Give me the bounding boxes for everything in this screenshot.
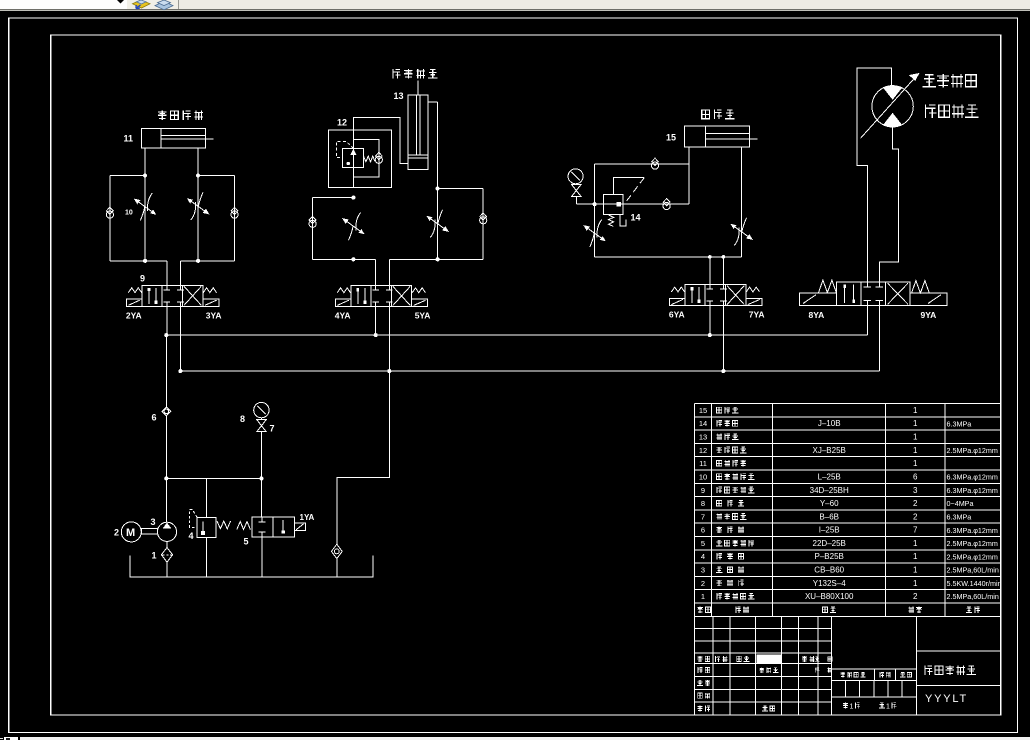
- valve V-89 left solenoid: [799, 293, 836, 305]
- node g2 rail left: [351, 257, 355, 261]
- wire right main vertical: [437, 102, 439, 259]
- node bus T g3: [721, 369, 725, 373]
- motor triangle bottom: [884, 113, 902, 127]
- title block middle section: [831, 668, 916, 670]
- svg-text:1: 1: [913, 446, 918, 455]
- wire C11 left port down: [144, 148, 146, 261]
- toolbar icon: layer properties (blue): [155, 0, 173, 10]
- svg-text:I–25B: I–25B: [819, 526, 840, 535]
- check valve 6 (diamond): [162, 407, 171, 416]
- valve V-89 center blocked ports: [866, 282, 868, 287]
- valve V-45 right spring: [412, 288, 425, 293]
- valve 14 drain: [620, 214, 626, 226]
- wire valve5 to tank: [261, 537, 263, 577]
- valve 5 blocked port stubs: [261, 517, 263, 522]
- pump 3 triangle: [163, 523, 172, 529]
- check valve g3 mid rail: [663, 202, 670, 209]
- wire bottom rail left: [110, 260, 167, 262]
- valve V9 right solenoid: [203, 299, 219, 306]
- tank rail: [130, 555, 373, 577]
- return bus (lower): [180, 370, 879, 372]
- wire g2 bottom rail right: [389, 258, 483, 260]
- svg-text:9: 9: [701, 486, 705, 495]
- svg-text:10: 10: [125, 210, 133, 217]
- svg-text:CB–B60: CB–B60: [814, 566, 844, 575]
- svg-text:2.5MPa.φ12mm: 2.5MPa.φ12mm: [947, 539, 998, 548]
- node bus T g2: [387, 369, 391, 373]
- svg-text:5: 5: [244, 537, 249, 547]
- wire gauge to branch: [261, 418, 263, 420]
- label group3 "clamp cylinder" (CJK): [702, 110, 710, 119]
- hydraulic motor circle: [872, 86, 913, 127]
- wire motor right pipe: [879, 127, 898, 287]
- svg-text:1: 1: [152, 551, 157, 561]
- wire C15 right port down: [741, 147, 743, 257]
- valve 12 body square: [343, 148, 364, 167]
- valve V-67 center position blocked ports: [709, 285, 711, 290]
- bottom scrollbar strip: [0, 737, 1030, 740]
- throttle valve right: [188, 192, 209, 220]
- node rail left: [143, 259, 147, 263]
- wire C11 right port down: [197, 148, 199, 261]
- node rail right: [196, 259, 200, 263]
- node bus P g2: [374, 333, 378, 337]
- svg-text:1: 1: [913, 579, 918, 588]
- valve V-45 right position crossed arrows: [393, 286, 410, 305]
- svg-text:2.5MPa.φ12mm: 2.5MPa.φ12mm: [947, 552, 998, 561]
- svg-text:6.3MPa.φ12mm: 6.3MPa.φ12mm: [947, 486, 998, 495]
- title block small labels: [697, 656, 702, 662]
- svg-text:P–B25B: P–B25B: [815, 552, 844, 561]
- valve 14 pilot diagonal (dashed): [625, 178, 644, 203]
- svg-text:12: 12: [337, 118, 347, 128]
- svg-text:2: 2: [913, 592, 918, 601]
- throttle valve left (item 10): [135, 193, 156, 221]
- highlighted cell: [757, 655, 781, 664]
- svg-text:2: 2: [913, 499, 918, 508]
- node g2 left split: [351, 196, 355, 200]
- valve V-67 right solenoid: [746, 298, 762, 305]
- motor variable arrow: [861, 79, 915, 139]
- valve 12 bypass loop: [353, 139, 378, 176]
- valve V9 right spring: [203, 288, 216, 293]
- svg-text:6: 6: [913, 472, 918, 481]
- svg-text:2.5MPa,60L/min: 2.5MPa,60L/min: [947, 566, 999, 575]
- svg-text:1: 1: [913, 406, 918, 415]
- valve V-89 left position arrows: [844, 285, 846, 304]
- svg-text:8: 8: [701, 499, 705, 508]
- svg-text:1: 1: [913, 566, 918, 575]
- directional valve V9 body: [142, 285, 203, 306]
- cylinder C15 piston: [704, 126, 706, 147]
- cylinder C13 piston: [408, 154, 428, 156]
- svg-text:15: 15: [699, 406, 707, 415]
- svg-text:1: 1: [850, 703, 854, 710]
- valve V9 left spring: [128, 288, 141, 293]
- wire g3 top rail: [595, 163, 690, 165]
- svg-text:9: 9: [140, 274, 145, 284]
- svg-text:12: 12: [699, 446, 707, 455]
- wire valve3 T to bus: [722, 301, 724, 371]
- gauge shutoff g3 (item 7): [572, 185, 581, 197]
- svg-text:2YA: 2YA: [126, 310, 142, 320]
- cylinder C11 body: [142, 128, 206, 148]
- svg-text:1: 1: [913, 459, 918, 468]
- wire P branch horizontal: [166, 477, 261, 479]
- svg-text:YYYLT: YYYLT: [925, 693, 968, 705]
- valve V-45 left position arrows: [357, 288, 359, 304]
- valve V9 center position blocked ports: [166, 285, 168, 290]
- svg-text:4YA: 4YA: [335, 310, 351, 320]
- toolbar icon: make layer current (yellow): [133, 0, 151, 9]
- motor triangle top: [884, 86, 902, 100]
- cylinder C13 rod inside: [416, 95, 418, 155]
- svg-text:6.3MPa.φ12mm: 6.3MPa.φ12mm: [947, 526, 998, 535]
- svg-text:6.3MPa: 6.3MPa: [947, 512, 972, 521]
- wire motor left pipe: [857, 68, 892, 287]
- wire valve2 T to bus: [388, 302, 390, 371]
- filter 1 (diamond with dashes): [161, 548, 172, 563]
- node g3 rail a: [708, 255, 712, 259]
- pump 3 circle: [157, 522, 176, 541]
- node g3: [593, 202, 597, 206]
- valve V-45 left solenoid: [335, 299, 351, 306]
- pressure gauge g3 (item 8): [568, 169, 583, 184]
- wire valve9 T port to return bus: [179, 302, 181, 371]
- svg-text:6.3MPa: 6.3MPa: [947, 419, 972, 428]
- cylinder C13 body: [408, 95, 428, 158]
- valve 12 pilot dashed line: [336, 142, 353, 158]
- valve V-89 right spring: [912, 281, 930, 294]
- check valve right bypass: [231, 211, 238, 218]
- valve 14 internal arrow: [606, 202, 621, 206]
- svg-text:1: 1: [913, 433, 918, 442]
- node g2 rail right: [436, 257, 440, 261]
- pressure gauge 8: [254, 402, 269, 417]
- wire bottom rail right: [180, 260, 234, 262]
- wire bypass left vertical: [109, 176, 111, 261]
- svg-text:2: 2: [913, 512, 918, 521]
- valve V-67 left solenoid: [669, 298, 685, 305]
- wire filter to tank: [166, 562, 168, 577]
- wire bypass rail top-left: [110, 175, 145, 177]
- wire C15 left port down: [688, 147, 690, 204]
- wire valve2 P to bus: [375, 302, 377, 335]
- valve 14 spring below: [609, 215, 614, 226]
- wire g3 mid rail: [595, 203, 690, 205]
- valve V9 left solenoid: [126, 299, 141, 306]
- parts list table grid: [695, 403, 1001, 405]
- table header row: [697, 607, 703, 613]
- svg-text:1: 1: [913, 539, 918, 548]
- node g2 right split: [436, 186, 440, 190]
- wire valve3 P to bus: [709, 301, 711, 335]
- valve V-89 right solenoid: [910, 293, 947, 305]
- node pump branch: [164, 476, 168, 480]
- wire pump riser: [165, 335, 167, 407]
- wire valve V-89 P down to bus: [866, 306, 868, 336]
- valve 12 check valve: [375, 156, 382, 163]
- throttle valve g2 right: [427, 210, 448, 238]
- wire gauge drop: [575, 184, 577, 185]
- wire branch down to unloader valve: [261, 478, 263, 517]
- sheet count labels: [843, 703, 848, 709]
- svg-text:L–25B: L–25B: [818, 472, 841, 481]
- svg-text:1: 1: [913, 552, 918, 561]
- cylinder C15 rod: [705, 133, 749, 135]
- svg-text:B–6B: B–6B: [819, 512, 839, 521]
- svg-text:XU–B80X100: XU–B80X100: [805, 592, 854, 601]
- svg-text:1: 1: [886, 703, 890, 710]
- wire right bypass vertical: [482, 189, 484, 260]
- label "hydraulic motor" (CJK): [926, 104, 937, 118]
- valve V-67 left spring: [671, 287, 684, 292]
- cylinder C15 body: [685, 126, 750, 147]
- valve V-45 left spring: [337, 288, 350, 293]
- relief valve 4 pilot dashed: [190, 510, 198, 528]
- wire pump suction: [166, 541, 168, 547]
- svg-text:6: 6: [701, 526, 705, 535]
- svg-text:5: 5: [701, 539, 705, 548]
- svg-text:M: M: [126, 527, 135, 539]
- cylinder C11 piston: [160, 128, 162, 148]
- svg-text:7YA: 7YA: [749, 310, 765, 320]
- toolbar combobox dropdown arrow: [117, 0, 124, 4]
- check valve left bypass: [106, 211, 113, 218]
- valve 5 spring left: [237, 522, 251, 530]
- wire to valve9 A port: [166, 261, 168, 290]
- valve V-67 left position arrows: [691, 287, 693, 303]
- svg-text:7: 7: [270, 424, 275, 434]
- pressure bus (upper): [166, 334, 867, 336]
- svg-text:10: 10: [699, 472, 707, 481]
- reducing valve 14 body: [604, 195, 624, 215]
- svg-text:4: 4: [189, 531, 194, 541]
- valve V9 left position arrows: [148, 288, 150, 304]
- wire to valve9 B port: [179, 261, 181, 290]
- valve 5 flow arrow: [282, 520, 284, 534]
- relief valve 4 internal arrow: [201, 522, 204, 535]
- svg-text:0~4MPa: 0~4MPa: [947, 499, 974, 508]
- gauge shutoff 7: [257, 420, 266, 432]
- valve V-45 right solenoid: [412, 299, 428, 306]
- throttle valve g3 left: [584, 220, 605, 248]
- label "overall rotation" (CJK): [923, 75, 937, 87]
- svg-text:15: 15: [666, 133, 676, 143]
- directional valve V-67 body: [685, 285, 746, 306]
- wire valve9 P port to pressure bus: [166, 302, 168, 335]
- unloader valve 5 body: [252, 517, 294, 537]
- wire g3 bottom rail: [595, 256, 742, 258]
- svg-text:8: 8: [240, 414, 245, 424]
- check valve g2 right bypass: [480, 217, 487, 224]
- wire to valve3 B: [722, 257, 724, 289]
- svg-text:3: 3: [701, 566, 705, 575]
- svg-text:J–10B: J–10B: [818, 419, 841, 428]
- svg-text:6.3MPa.φ12mm: 6.3MPa.φ12mm: [947, 473, 998, 482]
- svg-text:1: 1: [701, 592, 705, 601]
- valve 12 spring: [364, 156, 375, 162]
- svg-text:6: 6: [152, 413, 157, 423]
- svg-text:11: 11: [124, 134, 134, 144]
- svg-text:Y–60: Y–60: [820, 499, 839, 508]
- label group2 "arm lift" (CJK): [393, 69, 401, 79]
- valve 14 pilot line: [614, 178, 645, 195]
- title block outline: [695, 616, 1001, 715]
- valve V-45 center position blocked ports: [375, 285, 377, 290]
- svg-text:1: 1: [913, 419, 918, 428]
- svg-text:8YA: 8YA: [809, 310, 825, 320]
- directional valve V-89 body: [837, 282, 910, 306]
- svg-text:Y132S–4: Y132S–4: [813, 579, 846, 588]
- svg-text:14: 14: [699, 419, 707, 428]
- relief valve 4 spring: [217, 521, 231, 529]
- wire relief branch: [205, 478, 207, 517]
- svg-text:3: 3: [151, 517, 156, 527]
- svg-text:22D–25B: 22D–25B: [813, 539, 846, 548]
- wire bypass right vertical: [234, 176, 236, 261]
- cylinder C11 rod: [161, 134, 205, 136]
- svg-text:2: 2: [114, 528, 119, 538]
- wire check to tank: [336, 559, 338, 578]
- svg-text:4: 4: [701, 552, 705, 561]
- svg-text:11: 11: [699, 459, 707, 468]
- check valve g3 top rail: [651, 162, 658, 169]
- throttle valve g3 right: [731, 218, 752, 246]
- svg-text:1YA: 1YA: [300, 513, 315, 522]
- motor-pump coupling: [141, 529, 157, 535]
- wire C13 bottom port: [353, 118, 407, 164]
- wire C13 top port right: [428, 101, 438, 103]
- svg-text:3YA: 3YA: [206, 310, 222, 320]
- valve V-89 left spring: [819, 280, 837, 293]
- node g3 rail b: [722, 255, 726, 259]
- title block left grid: [695, 628, 832, 630]
- directional valve V-45 body: [351, 285, 412, 306]
- check valve g2 left bypass: [309, 220, 316, 227]
- valve V9 right position crossed arrows: [184, 286, 201, 305]
- svg-text:14: 14: [631, 213, 641, 223]
- wire g3 left vertical: [594, 164, 596, 257]
- wire relief to tank: [205, 537, 207, 577]
- valve 12 pilot dot: [347, 162, 350, 165]
- valve 12 enclosure box: [329, 130, 392, 188]
- svg-text:5YA: 5YA: [415, 310, 431, 320]
- relief valve 4 body: [197, 517, 216, 537]
- title block right column dividers: [916, 650, 1000, 652]
- svg-text:7: 7: [913, 526, 918, 535]
- wire to valve3 A: [709, 257, 711, 289]
- cylinder C13 rod-end cap: [408, 158, 428, 170]
- wire to valve2 A: [375, 259, 377, 290]
- wire g2 bottom rail left: [313, 258, 376, 260]
- node bus P g3: [708, 333, 712, 337]
- node bus T g1: [178, 369, 182, 373]
- electric motor M (item 2): [121, 522, 141, 542]
- wire return drop from bus: [337, 371, 390, 544]
- node split left: [143, 173, 147, 177]
- valve V-89 crossed arrows: [888, 283, 908, 304]
- wire valve V-89 T down to bus: [878, 306, 880, 372]
- throttle valve g2 left: [343, 213, 364, 241]
- drawing title "hydraulic schematic" (CJK): [925, 666, 933, 675]
- svg-text:2.5MPa,60L/min: 2.5MPa,60L/min: [947, 592, 999, 601]
- valve V-67 right position crossed arrows: [727, 286, 744, 305]
- cylinder C13 rod up: [417, 81, 419, 96]
- label group1 "arm telescope" (CJK): [158, 111, 167, 121]
- svg-text:2: 2: [701, 579, 705, 588]
- wire right bypass rail: [438, 188, 484, 190]
- svg-text:9YA: 9YA: [921, 310, 937, 320]
- valve 12 internal arrow: [351, 150, 355, 166]
- svg-text:13: 13: [699, 433, 707, 442]
- node split right: [196, 173, 200, 177]
- node bus P g1: [164, 333, 168, 337]
- valve 5 solenoid 1YA: [294, 523, 305, 531]
- valve V-67 right spring: [746, 287, 759, 292]
- svg-text:6YA: 6YA: [669, 310, 685, 320]
- valve 12 main line through: [352, 130, 354, 188]
- svg-text:7: 7: [701, 512, 705, 521]
- svg-text:3: 3: [913, 486, 918, 495]
- node gauge branch: [259, 476, 263, 480]
- wire left bypass rail: [313, 197, 354, 199]
- wire to valve2 B: [388, 259, 390, 290]
- svg-text:5.5KW.1440r/min: 5.5KW.1440r/min: [947, 579, 1002, 588]
- wire bypass rail top-right: [198, 175, 234, 177]
- svg-text:2.5MPa.φ12mm: 2.5MPa.φ12mm: [947, 446, 998, 455]
- wire left bypass vertical: [312, 198, 314, 260]
- svg-text:34D–25BH: 34D–25BH: [810, 486, 849, 495]
- toolbar strip (cropped app toolbar): [0, 0, 1030, 13]
- svg-text:XJ–B25B: XJ–B25B: [813, 446, 846, 455]
- back-pressure check valve (diamond): [331, 544, 342, 558]
- svg-text:13: 13: [394, 91, 404, 101]
